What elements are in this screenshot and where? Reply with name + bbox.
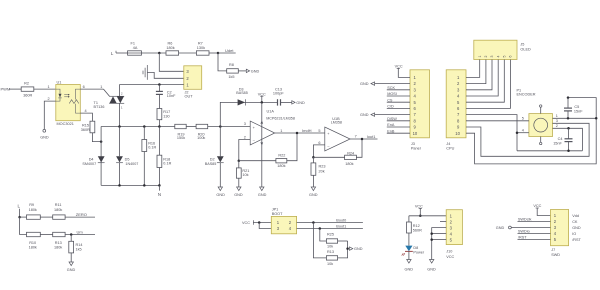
svg-text:10nF: 10nF (167, 94, 176, 98)
connector J5 OLED (474, 40, 531, 59)
svg-text:20k: 20k (319, 169, 325, 173)
svg-text:0.1R: 0.1R (163, 162, 171, 166)
svg-text:R25: R25 (327, 233, 334, 237)
svg-text:1: 1 (48, 85, 50, 89)
junction (118, 125, 121, 128)
svg-text:15nF: 15nF (574, 110, 583, 114)
node DiSW (387, 117, 410, 121)
resistor R2 (21, 82, 34, 98)
triac T1 (94, 92, 125, 110)
svg-text:GND: GND (572, 226, 581, 230)
node CS (387, 98, 410, 102)
svg-text:DiSW: DiSW (387, 117, 397, 121)
svg-text:OUT: OUT (185, 95, 194, 99)
op-amp U1B (318, 117, 356, 151)
wire inverting input U1B (313, 145, 324, 157)
svg-text:R6: R6 (168, 41, 173, 45)
wire (158, 120, 160, 127)
ground (open circle) (40, 129, 49, 139)
encoder bottom mount (540, 137, 542, 145)
power VCC J3 (395, 65, 410, 78)
svg-text:F1: F1 (131, 41, 135, 45)
ground flag GND (350, 247, 363, 251)
wire J4 pin9 loop (466, 123, 589, 156)
resistor R19 (175, 124, 186, 140)
svg-text:5: 5 (318, 129, 320, 133)
wire inverting input (239, 140, 250, 161)
wire U1 pin4 to R15 (80, 109, 92, 121)
wire J10 gnd column (432, 228, 447, 260)
node ImdH (302, 128, 312, 133)
svg-text:560R: 560R (413, 229, 422, 233)
ground flag pin2 (360, 82, 410, 86)
wire triac vertical (119, 85, 121, 127)
svg-text:ENCODER: ENCODER (517, 93, 536, 97)
node Um (65, 229, 95, 234)
svg-text:VCC: VCC (533, 204, 541, 208)
wire (186, 126, 196, 128)
encoder P1 (517, 88, 558, 136)
wire (244, 101, 277, 103)
svg-text:360R: 360R (81, 128, 90, 132)
svg-text:C/D: C/D (387, 105, 394, 109)
svg-text:J10: J10 (446, 249, 452, 253)
svg-text:GND: GND (67, 268, 76, 272)
svg-text:GND: GND (40, 136, 49, 140)
svg-text:MOC3021: MOC3021 (57, 122, 74, 126)
svg-text:/RST: /RST (518, 236, 527, 240)
svg-text:VCC: VCC (446, 255, 454, 259)
diode D2 BAS85 (205, 156, 224, 166)
svg-text:R24: R24 (347, 152, 354, 156)
svg-text:10: 10 (455, 131, 460, 136)
svg-text:BT136: BT136 (94, 105, 105, 109)
op-amp U1A (244, 110, 295, 145)
resistor R8 (227, 63, 239, 79)
wire (20, 217, 27, 234)
ground arrow (234, 187, 243, 197)
junction (217, 52, 220, 55)
junction (430, 238, 433, 241)
svg-text:J4: J4 (446, 142, 450, 146)
svg-text:GND: GND (354, 247, 363, 251)
node C/D (387, 105, 410, 109)
resistor R15 (81, 121, 95, 133)
wire (141, 52, 166, 54)
wire (338, 241, 348, 258)
wire (116, 52, 128, 54)
svg-text:BAS85: BAS85 (236, 91, 247, 95)
wire bus upper (101, 126, 175, 128)
wire OLED pin1 to J4 (466, 60, 480, 78)
wire J4 pin7 to encoder pin4 column (466, 115, 517, 151)
resistor R18 (157, 127, 172, 186)
svg-text:J3: J3 (411, 142, 415, 146)
junction (158, 83, 161, 86)
capacitor C2 (156, 85, 176, 109)
svg-text:R13: R13 (327, 250, 334, 254)
svg-text:C4: C4 (558, 137, 563, 141)
svg-text:GND: GND (405, 267, 414, 271)
wire encoder pin1 row (553, 117, 597, 119)
fuse F1 4A (128, 41, 142, 55)
svg-text:Udet: Udet (225, 48, 234, 53)
svg-text:7: 7 (355, 134, 357, 138)
junction (595, 117, 598, 120)
svg-text:VCC: VCC (258, 92, 266, 96)
svg-text:15nF: 15nF (553, 142, 562, 146)
svg-text:BOOT: BOOT (272, 212, 283, 216)
junction (238, 159, 241, 162)
svg-text:BAS85: BAS85 (205, 162, 216, 166)
svg-text:180k: 180k (345, 162, 353, 166)
svg-text:GND: GND (427, 267, 436, 271)
svg-text:OLED: OLED (520, 47, 531, 51)
svg-text:D4: D4 (89, 157, 94, 161)
svg-text:SWDclk: SWDclk (518, 218, 532, 222)
svg-text:EnA: EnA (387, 123, 395, 127)
optocoupler U1 (56, 80, 81, 126)
node Iout1 (367, 134, 377, 139)
node /RST (518, 236, 551, 240)
junction (419, 215, 422, 218)
svg-text:J5: J5 (520, 43, 524, 47)
connector J7 SWD (551, 210, 582, 257)
svg-text:R11: R11 (55, 203, 62, 207)
svg-text:180k: 180k (54, 245, 62, 249)
wire (34, 85, 56, 89)
svg-text:SM4007: SM4007 (82, 162, 96, 166)
power VCC (258, 92, 266, 102)
wire J4 pin8 to encoder pin5 (466, 120, 529, 122)
svg-text:6: 6 (509, 56, 513, 58)
svg-text:180k: 180k (277, 164, 285, 168)
junction (296, 132, 299, 135)
svg-text:1: 1 (100, 85, 102, 89)
junction (143, 125, 146, 128)
svg-text:VCC: VCC (395, 65, 403, 69)
svg-text:5: 5 (503, 56, 507, 58)
wire encoder pin4 stub (517, 132, 529, 134)
svg-text:SCK: SCK (387, 86, 395, 90)
ground arrow (309, 187, 318, 197)
svg-text:R8: R8 (229, 63, 234, 67)
junction (118, 184, 121, 187)
wire J2 pin1 row (120, 84, 184, 86)
resistor R14 (69, 235, 83, 263)
junction (516, 131, 519, 134)
wire pin2 to GND (44, 97, 56, 129)
node L (18, 204, 21, 217)
svg-text:4A: 4A (133, 46, 138, 50)
resistor R25 (326, 233, 337, 249)
svg-text:R2: R2 (24, 82, 29, 86)
encoder top mount (540, 105, 542, 114)
svg-text:6: 6 (83, 85, 85, 89)
junction (158, 184, 161, 187)
svg-text:Iout1: Iout1 (367, 134, 377, 139)
svg-text:360R: 360R (23, 93, 32, 97)
svg-text:VCC: VCC (242, 221, 250, 225)
junction (346, 247, 349, 250)
connector J3 Panel (410, 70, 430, 151)
junction (430, 232, 433, 235)
wire OLED pin3 to J4 (466, 60, 492, 90)
svg-text:ImdH: ImdH (302, 128, 312, 133)
resistor R20 (196, 124, 208, 140)
svg-text:C5: C5 (574, 105, 579, 109)
ground flag GND (246, 69, 259, 73)
resistor R13 (53, 232, 65, 249)
junction (261, 101, 264, 104)
svg-text:Um: Um (77, 229, 84, 234)
junction (158, 52, 161, 55)
diode D4 SM4007 (82, 156, 104, 166)
svg-text:1k5: 1k5 (76, 247, 82, 251)
svg-text:1N4007: 1N4007 (125, 162, 138, 166)
ground arrow (67, 262, 76, 272)
svg-text:10k: 10k (327, 245, 333, 249)
svg-text:3: 3 (556, 119, 558, 123)
wire J10 pin2 stub (440, 221, 446, 223)
wire to opamp (208, 126, 251, 128)
junction (158, 125, 161, 128)
node EnA (387, 123, 410, 127)
node Boot1 (297, 224, 363, 228)
resistor R11 (53, 203, 65, 219)
resistor R13 boot (326, 250, 337, 266)
svg-text:Boot1: Boot1 (336, 224, 346, 228)
ground arrow (405, 260, 414, 272)
resistor R24 feedback (313, 139, 362, 166)
svg-text:D2: D2 (210, 157, 215, 161)
wire D5 column (119, 127, 121, 186)
svg-text:GND: GND (360, 113, 369, 117)
junction (100, 140, 103, 143)
svg-text:CK: CK (572, 220, 578, 224)
junction (319, 227, 322, 230)
wire D2 column (219, 127, 221, 157)
svg-text:VCC: VCC (415, 205, 423, 209)
svg-text:D5: D5 (125, 157, 130, 161)
svg-text:R22: R22 (278, 153, 285, 157)
wire (238, 70, 246, 72)
svg-text:1: 1 (556, 114, 558, 118)
svg-text:SWD: SWD (551, 253, 560, 257)
node L (111, 51, 116, 56)
connector J2 OUT (184, 66, 202, 99)
svg-text:EnB: EnB (387, 129, 395, 133)
resistor R10 (27, 232, 41, 249)
junction (312, 156, 315, 159)
svg-text:GND: GND (251, 69, 260, 73)
svg-text:2: 2 (484, 56, 488, 58)
jumper JP1 BOOT (271, 207, 296, 233)
wire OLED pin6 to J4 (466, 60, 510, 109)
wire to D3 (220, 102, 237, 126)
ground arrow (258, 187, 267, 197)
svg-text:2: 2 (244, 135, 246, 139)
node ZERO (65, 212, 95, 217)
connector J10 VCC (446, 210, 462, 259)
svg-text:R12: R12 (413, 224, 420, 228)
wire junction to J2 pin3 (159, 53, 184, 71)
svg-text:150k: 150k (177, 136, 185, 140)
svg-text:GND: GND (360, 82, 369, 86)
svg-text:3: 3 (490, 56, 494, 58)
svg-text:5: 5 (522, 116, 524, 120)
svg-text:6: 6 (318, 141, 320, 145)
wire output U1B (350, 138, 377, 140)
resistor R16 (142, 127, 157, 186)
junction (143, 184, 146, 187)
power VCC J7 (533, 204, 550, 215)
svg-text:SWDio: SWDio (518, 230, 530, 234)
svg-text:IO: IO (572, 232, 576, 236)
wire OLED pin5 to J4 (466, 60, 504, 103)
wire bus lower (101, 184, 159, 186)
wire (20, 216, 27, 218)
wire pin6 to triac gate (80, 85, 109, 97)
wire OLED pin2 to J4 (466, 60, 486, 84)
wire (338, 240, 348, 242)
resistor R21 (236, 161, 249, 187)
resistor R7 (196, 41, 209, 55)
node Udet (218, 48, 236, 53)
wire (219, 163, 221, 187)
node EnB (387, 129, 410, 133)
svg-text:GND: GND (309, 193, 318, 197)
svg-text:3: 3 (244, 122, 246, 126)
node Boot0 (297, 218, 363, 222)
wire (209, 52, 218, 54)
svg-text:GND: GND (296, 101, 305, 105)
svg-text:180k: 180k (166, 46, 174, 50)
svg-text:R9: R9 (29, 203, 34, 207)
svg-text:ZERO: ZERO (76, 212, 87, 217)
connector J4 CPU (446, 70, 466, 151)
wire J4 pin10 loop (466, 98, 596, 164)
svg-text:2: 2 (48, 97, 50, 101)
node N (158, 185, 161, 197)
junction (567, 117, 570, 120)
svg-text:/RST: /RST (572, 238, 581, 242)
svg-text:U1A: U1A (267, 110, 275, 114)
svg-text:1: 1 (280, 129, 282, 133)
junction (312, 221, 315, 224)
wire VCC row (409, 215, 446, 217)
node MOSI (387, 92, 410, 96)
diode D3 BAS85 (236, 87, 247, 105)
svg-text:130k: 130k (197, 46, 205, 50)
svg-text:Vdd: Vdd (572, 214, 579, 218)
svg-text:J7: J7 (551, 248, 555, 252)
node SWDclk (518, 218, 551, 222)
svg-text:10k: 10k (242, 173, 248, 177)
svg-text:180k: 180k (29, 208, 37, 212)
wire OLED pin4 to J4 (466, 60, 498, 97)
svg-text:4: 4 (85, 109, 87, 113)
svg-text:LM358: LM358 (331, 121, 342, 125)
resistor R23 (311, 157, 325, 187)
svg-text:10: 10 (413, 131, 418, 136)
wire encoder pin2 row (553, 128, 583, 151)
svg-text:0.1R: 0.1R (148, 146, 156, 150)
svg-text:D8: D8 (413, 246, 418, 250)
wire R15 to node (92, 133, 101, 142)
wire to R8 (218, 53, 227, 71)
svg-text:R23: R23 (319, 165, 326, 169)
svg-text:4: 4 (496, 56, 500, 58)
svg-text:180k: 180k (54, 208, 62, 212)
wire bottom loop H1 (517, 150, 582, 152)
wire to R13b (313, 223, 326, 258)
svg-text:10k: 10k (327, 262, 333, 266)
wire (259, 223, 271, 229)
svg-text:CPU: CPU (446, 147, 454, 151)
resistor R17 (157, 109, 170, 120)
svg-text:CS: CS (387, 98, 393, 102)
svg-text:GND: GND (234, 193, 243, 197)
svg-text:GND: GND (258, 193, 267, 197)
diode D5 1N4007 (116, 156, 138, 166)
resistor R9 (27, 203, 41, 219)
wire opamp power (261, 102, 263, 187)
svg-text:130: 130 (163, 114, 169, 118)
wire (40, 234, 52, 236)
capacitor C13 (273, 88, 292, 106)
junction (361, 138, 364, 141)
svg-text:100pF: 100pF (273, 92, 284, 96)
wire output (275, 132, 325, 134)
svg-text:100k: 100k (197, 136, 205, 140)
ground arrow (427, 260, 436, 272)
svg-text:Panel: Panel (411, 147, 421, 151)
svg-text:U1: U1 (57, 80, 62, 84)
wire (40, 216, 52, 218)
node SCK (387, 86, 410, 90)
ground flag GND (292, 101, 305, 105)
wire (179, 52, 197, 54)
svg-text:GND: GND (216, 193, 225, 197)
svg-text:1: 1 (478, 56, 482, 58)
svg-text:2: 2 (556, 124, 558, 128)
svg-text:PWM: PWM (1, 86, 11, 91)
capacitor C4 (553, 127, 572, 152)
svg-text:Power: Power (413, 250, 424, 254)
capacitor C5 (564, 96, 583, 118)
svg-text:R7: R7 (198, 41, 203, 45)
svg-text:1k5: 1k5 (228, 75, 234, 79)
resistor R22 feedback (239, 133, 297, 168)
node SWDio (518, 230, 551, 234)
ground arrow (216, 187, 225, 197)
resistor R12 (407, 216, 423, 246)
ground (open circle) J7 (496, 226, 551, 230)
junction (258, 221, 261, 224)
svg-text:MCP6231/LM358: MCP6231/LM358 (266, 117, 295, 121)
junction (70, 233, 73, 236)
power VCC JP1 (242, 220, 271, 225)
svg-text:MOSI: MOSI (387, 92, 397, 96)
svg-text:Boot0: Boot0 (336, 218, 346, 222)
wire left vertical (100, 127, 102, 186)
ground flag pin7 (360, 113, 410, 117)
wire to R25 (320, 229, 327, 242)
svg-text:4: 4 (522, 129, 524, 133)
node PWM (1, 86, 11, 91)
junction (18, 216, 21, 219)
